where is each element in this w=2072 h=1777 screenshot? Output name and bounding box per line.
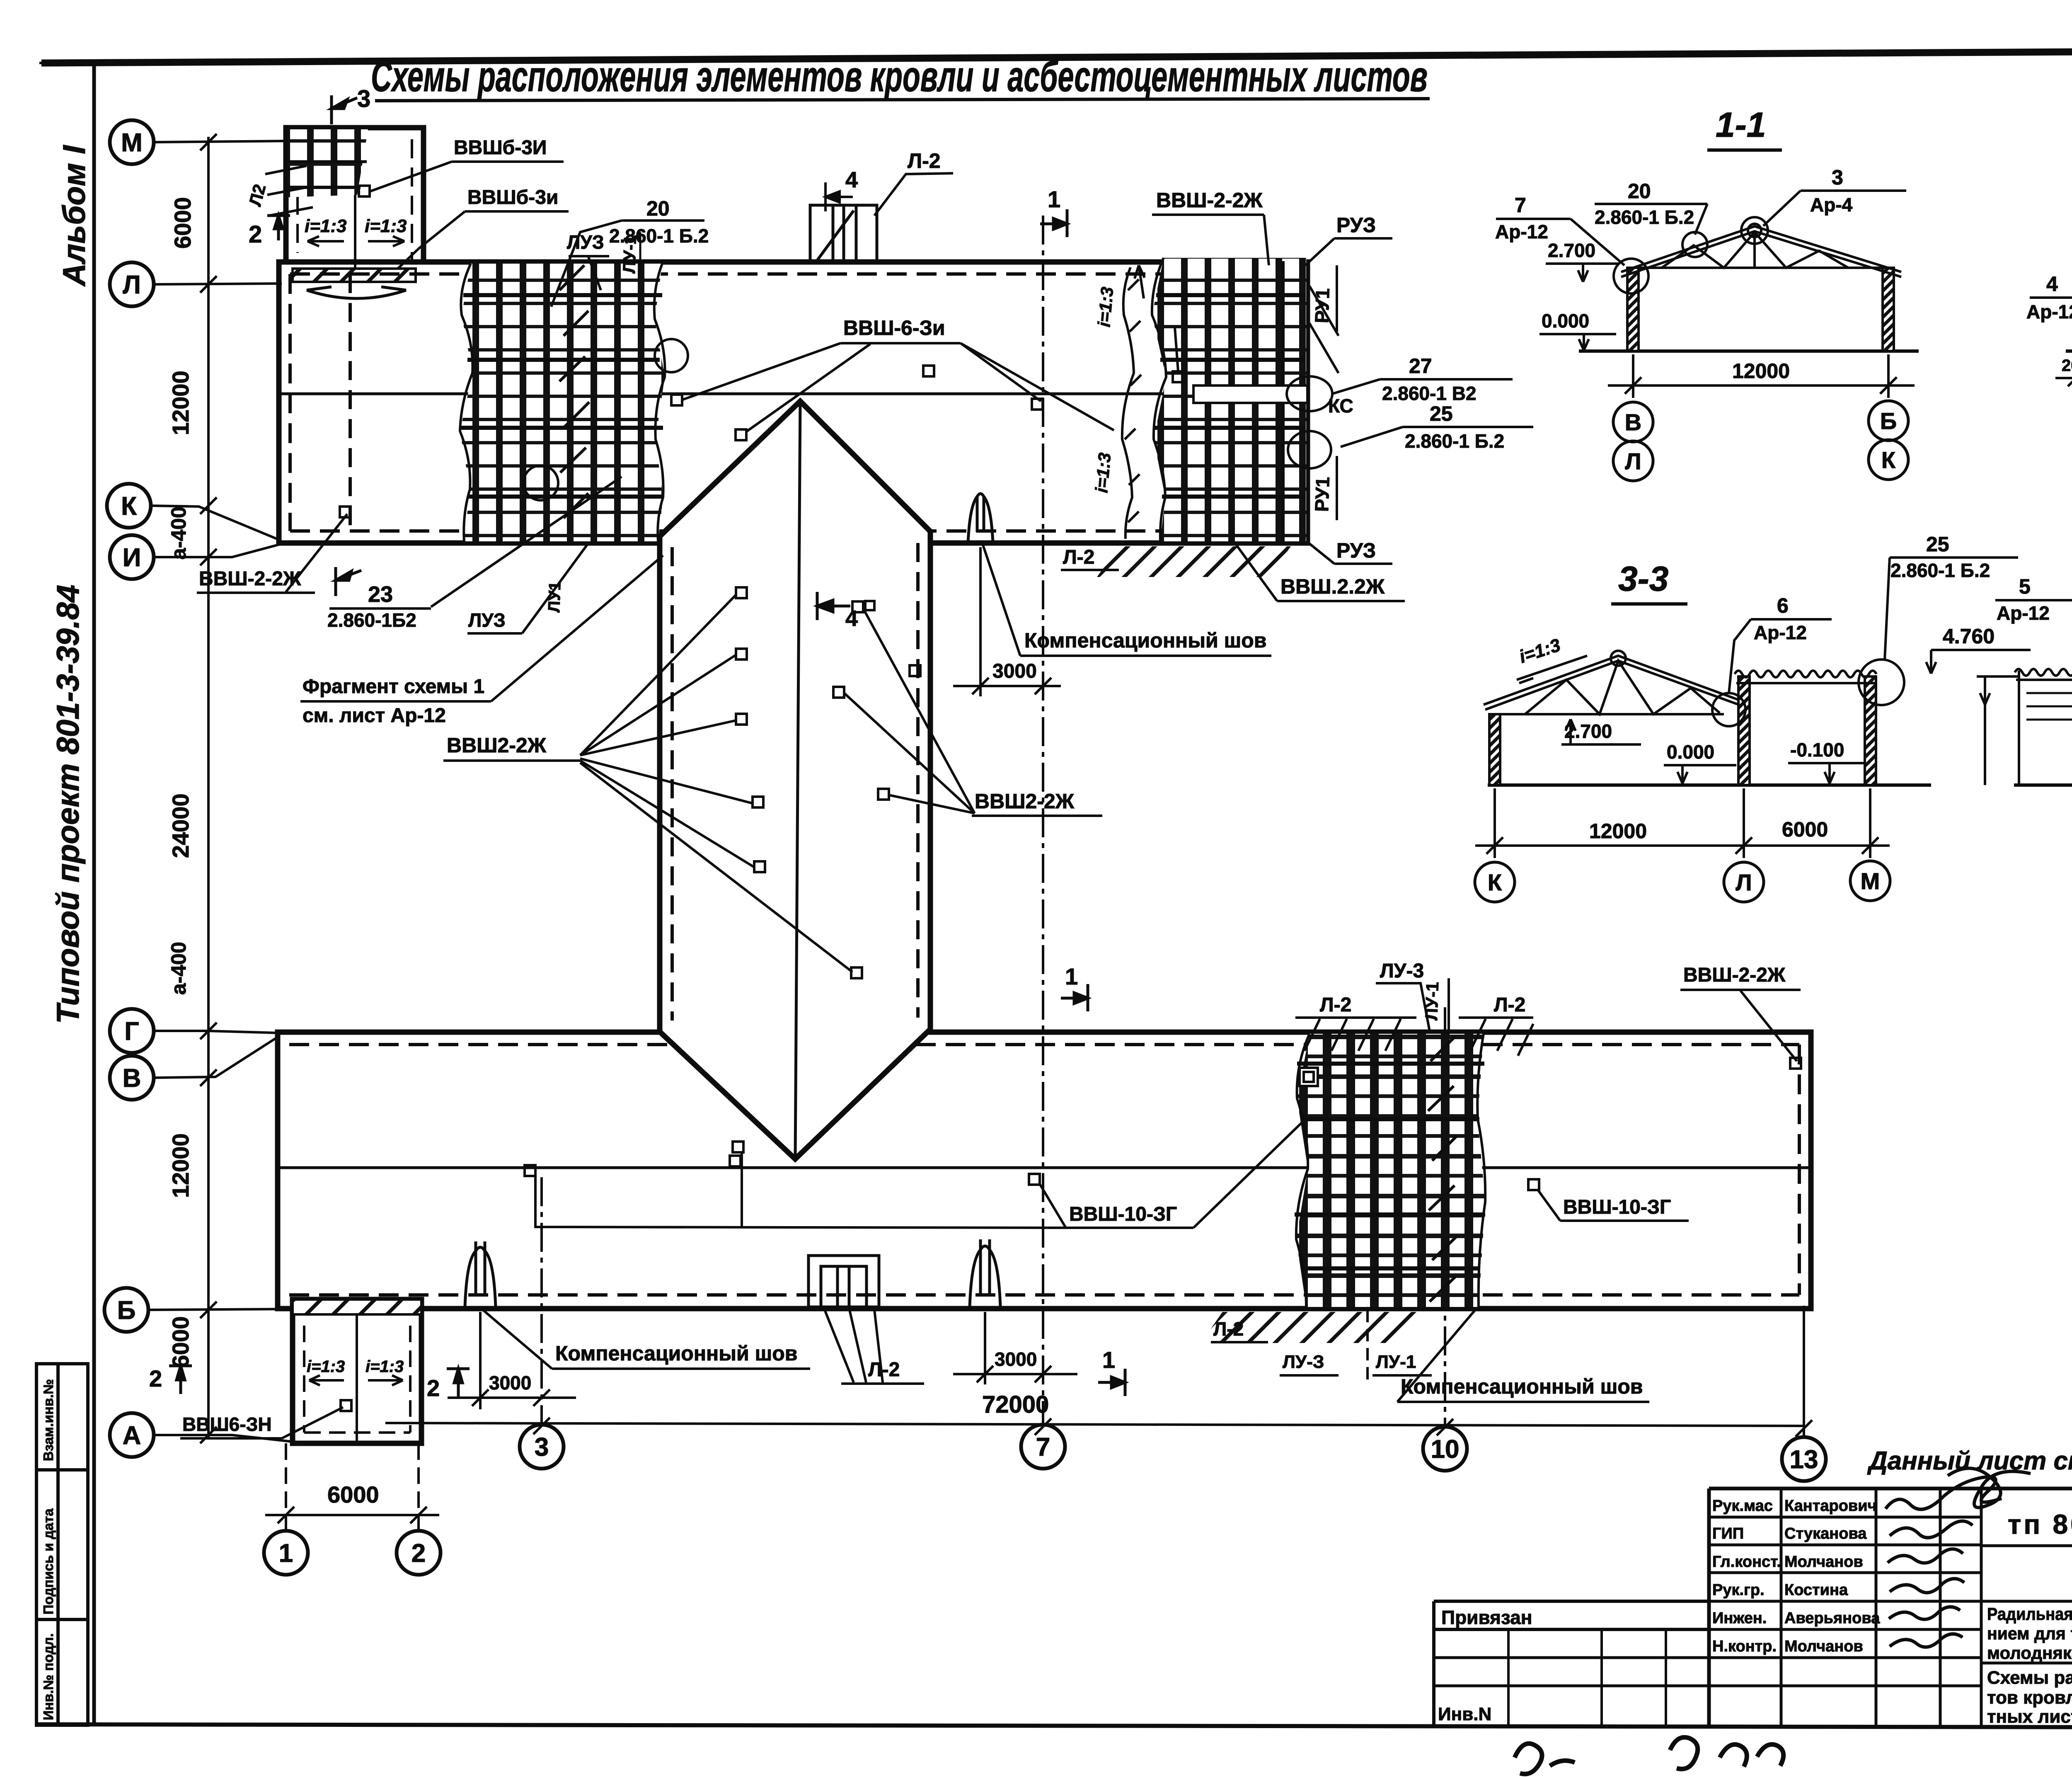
1-1 truss top chords (double) [1621,226,1901,277]
1-1 axis circles [1613,401,1908,481]
svg-text:тов кровли и асбестоцемен-: тов кровли и асбестоцемен- [1987,1687,2072,1708]
svg-text:Молчанов: Молчанов [1784,1638,1863,1655]
signatures scribbles [1886,1468,2031,1647]
3-3 small circle left of connector [1712,693,1745,726]
marker square in top strip left [340,507,351,517]
detail circle on block1 lower [523,465,558,500]
3-3 apex mark [1611,651,1626,666]
diagonal hatch band below block3 [1201,1312,1417,1343]
compensation bump 2 [970,1239,1000,1307]
bottom strip outline [278,1032,1811,1309]
hatch block 2 torn edge [1152,258,1166,541]
hatch block 3 [1296,1034,1485,1307]
axis circle Г [110,1009,154,1053]
detail circle on block1 upper [655,339,688,372]
svg-text:ВВШ.2.2Ж: ВВШ.2.2Ж [1280,575,1385,598]
svg-text:72000: 72000 [982,1391,1049,1418]
axis 7 dash-dot line [1042,216,1044,1425]
svg-text:ГИП: ГИП [1712,1525,1744,1542]
title underline [375,99,1430,101]
svg-text:тп 801-3-39.84: тп 801-3-39.84 [2008,1509,2072,1539]
vent box on top strip [810,205,877,262]
svg-text:3000: 3000 [995,1348,1037,1370]
bottom appendage inner dashed [304,1326,410,1433]
hexagon dashed valley left [670,547,674,1021]
svg-text:2.860-1 Б.2: 2.860-1 Б.2 [1890,560,1990,581]
svg-text:i=1:3: i=1:3 [366,1358,404,1376]
svg-text:Аверьянова: Аверьянова [1784,1610,1880,1627]
i=1:3 labels bottom appendage [307,1358,345,1385]
3-3 ground line [1488,783,1931,787]
diagonal band inside block3 [1428,1036,1458,1302]
svg-text:i=1:3: i=1:3 [307,1358,345,1376]
svg-text:а-400: а-400 [167,507,190,560]
svg-text:12000: 12000 [167,1133,194,1198]
svg-text:2.860-1 Б.2: 2.860-1 Б.2 [1595,206,1694,228]
svg-text:23: 23 [368,582,393,607]
svg-text:2: 2 [149,1365,162,1392]
svg-text:20: 20 [1628,179,1651,203]
3000 dim left [479,1312,482,1409]
svg-text:-0.100: -0.100 [1790,739,1844,761]
svg-text:Компенсационный шов: Компенсационный шов [1401,1375,1643,1398]
svg-text:1: 1 [1048,186,1060,212]
4-4 ground line [2014,783,2072,787]
svg-text:25: 25 [1430,402,1453,425]
3000 dim right [984,1312,986,1384]
hatch block 1 torn edges [460,264,665,541]
axis circle 10 [1423,1427,1467,1471]
bottom strip dashed right [1798,1045,1801,1295]
diagonal hatch band under top strip right [1097,546,1291,577]
axis circle 7 [1021,1425,1065,1469]
detail ellipse lower [1288,431,1331,468]
svg-text:i=1:3: i=1:3 [305,216,347,236]
1-1 truss webs [1662,232,1848,268]
svg-text:Типовой проект 801-3-39.84: Типовой проект 801-3-39.84 [51,585,86,1024]
slope label i=1:3 left [305,216,347,246]
compensation bump 1 on bottom strip [465,1241,496,1307]
svg-text:нием для телят и ремонтного: нием для телят и ремонтного [1987,1624,2072,1643]
svg-text:7: 7 [1036,1433,1050,1462]
marker squares top strip [671,395,682,405]
left sub-table (Privyazan) [1434,1601,1709,1725]
svg-text:см. лист Ар-12: см. лист Ар-12 [303,705,446,727]
slope label i=1:3 right [365,216,407,246]
svg-text:Л-2: Л-2 [1320,994,1351,1016]
svg-text:ЛУ-З: ЛУ-З [1283,1352,1324,1372]
svg-text:Схемы расположения элементов к: Схемы расположения элементов кровли и ас… [371,53,1428,101]
section mark 4 in hexagon [817,592,850,620]
marker square bottom appendage [341,1400,351,1411]
marker squares in hexagon [730,587,920,1166]
svg-text:Альбом I: Альбом I [57,145,92,287]
1-1 right column [1883,268,1894,351]
svg-text:4: 4 [845,606,858,631]
1-1 left column [1627,268,1639,351]
svg-text:3-3: 3-3 [1618,559,1668,598]
left vertical dimension line [200,134,217,1443]
1-1 truss bottom chord [1629,267,1894,269]
section mark 1 top [1040,209,1067,237]
svg-text:В: В [123,1064,141,1093]
VVSh-10-3G markers and label left [525,1142,1040,1185]
3-3 axis circles [1475,861,1890,902]
left leader fan to VVSh2-2Zh [580,595,852,972]
svg-text:2.860-1Б2: 2.860-1Б2 [327,609,416,631]
svg-text:Л-2: Л-2 [1213,1318,1244,1340]
left stamp table [36,1364,88,1725]
svg-text:1: 1 [1065,963,1078,989]
ridge element band at right edge [1281,261,1285,541]
dashed vertical axis in left part of strip [349,274,352,531]
svg-text:Инв.N: Инв.N [1438,1704,1491,1724]
sheet frame bottom line [36,1724,2072,1728]
1-1 slope detail circle [1682,232,1707,257]
bottom strip dashed top [289,1043,1799,1046]
vent box leader L-2 [874,173,953,216]
svg-text:12000: 12000 [167,371,194,435]
axis circle 1 [264,1531,308,1575]
svg-text:Л-2: Л-2 [908,149,941,172]
vent box 2 on bottom edge [808,1256,879,1307]
svg-text:Гл.конст.: Гл.конст. [1712,1553,1781,1571]
svg-text:Привязан: Привязан [1441,1607,1532,1628]
svg-text:3000: 3000 [489,1372,531,1394]
axis 10 dash-dot line [1444,1007,1446,1426]
svg-text:ВВШб-3И: ВВШб-3И [454,137,547,159]
top strip inner dashed bottom [290,529,1296,533]
svg-text:Костина: Костина [1784,1581,1848,1599]
3-3 corrugated roof [1735,671,1876,677]
top strip inner dashed left [288,274,292,531]
signature table columns [1781,1489,1981,1725]
svg-text:4.760: 4.760 [1943,625,1995,648]
svg-text:6000: 6000 [167,1316,194,1368]
svg-text:3: 3 [535,1433,549,1462]
compensation joint bump on top strip bottom edge [968,494,993,543]
svg-text:Ар-12: Ар-12 [1997,602,2050,624]
VVSh-10-3G label right [1528,1179,1539,1190]
faint bottom scribbles [1515,1737,1784,1774]
svg-text:6000: 6000 [1782,818,1828,841]
svg-text:РУ1: РУ1 [1311,476,1334,512]
svg-text:25: 25 [1926,533,1949,556]
axis circle 2 [397,1531,441,1575]
svg-text:6: 6 [1777,594,1789,617]
svg-text:2: 2 [249,221,262,248]
section mark 1 mid right [1061,984,1088,1011]
4-4 gable shading lines [2026,693,2072,720]
svg-text:ВВШ2-2Ж: ВВШ2-2Ж [975,790,1075,813]
svg-text:ВВШ6-ЗН: ВВШ6-ЗН [182,1413,272,1435]
1-1 ground line [1579,349,1919,353]
svg-text:24000: 24000 [167,793,194,858]
2-2 dims [2055,354,2072,388]
svg-text:Рук.мас: Рук.мас [1712,1497,1773,1515]
axis circle М [110,120,154,164]
svg-text:Ар-12: Ар-12 [2026,301,2072,322]
top appendage inner dashed [298,139,412,262]
tick outside top-left [39,63,94,63]
3-3 left column [1489,714,1500,785]
svg-text:А: А [123,1421,141,1450]
svg-text:Л: Л [1625,448,1641,474]
svg-text:Взам.инв.№: Взам.инв.№ [41,1379,56,1461]
svg-text:2.860-1 Б.2: 2.860-1 Б.2 [609,225,709,247]
main bottom dim line 72000 [385,1418,1812,1437]
bottom strip dashed bottom [289,1293,1799,1297]
white KC gap on ridge line [1193,385,1307,403]
top strip inner dashed right [1295,274,1298,531]
4-4 corrugated roof [2015,669,2072,676]
1-1 apex detail circle [1741,217,1768,244]
svg-text:И: И [123,543,141,572]
svg-text:ЛУ1: ЛУ1 [545,581,564,613]
marker square in appendage [359,186,370,196]
svg-text:3: 3 [1832,166,1843,189]
svg-text:ЛУЗ: ЛУЗ [468,609,506,631]
3000 dim at joint [979,547,982,696]
svg-text:2.860-1 Б.2: 2.860-1 Б.2 [1405,430,1504,452]
svg-text:Ар-12: Ар-12 [1495,221,1548,242]
svg-text:Л-2: Л-2 [868,1359,900,1381]
svg-text:ЛУ-3: ЛУ-3 [1380,960,1424,982]
small marker right of section 4 [865,601,874,610]
4-4 left wall line [2018,671,2020,785]
svg-text:6000: 6000 [169,197,196,249]
torn cut line left of block2 [1122,267,1134,539]
svg-text:0.000: 0.000 [1667,741,1714,763]
section mark 2 bottom appendage [169,1366,192,1394]
svg-text:Б: Б [1880,408,1897,434]
hatch block 3 purlins [1295,1064,1485,1268]
hexagon dashed valley right [916,543,920,1018]
top appendage center line [354,128,356,269]
svg-text:i=1:3: i=1:3 [1092,452,1114,494]
central hexagon roof outline [660,401,930,1159]
svg-text:К: К [121,492,137,521]
axis circle Л [110,262,154,306]
svg-text:а-400: а-400 [167,942,190,995]
sheet frame top line [41,50,2072,63]
svg-text:К: К [1881,447,1896,473]
svg-text:ВВШ-10-ЗГ: ВВШ-10-ЗГ [1069,1203,1177,1225]
svg-text:Компенсационный шов: Компенсационный шов [1024,629,1267,652]
svg-text:i=1:3: i=1:3 [365,216,407,236]
svg-text:Данный лист см. с листом: Данный лист см. с листом Ар-12 [1867,1447,2072,1475]
svg-text:ВВШ-2-2Ж: ВВШ-2-2Ж [1156,189,1263,212]
axis circle А [110,1413,154,1457]
section mark 2 (left, up arrow) [267,216,290,240]
svg-text:i=1:3: i=1:3 [1094,286,1117,328]
svg-text:Г: Г [124,1017,139,1046]
top strip ridge midline [279,393,1307,395]
svg-text:Схемы расположения элемен-: Схемы расположения элемен- [1987,1668,2072,1688]
tick marks on cut line [1125,279,1141,522]
3-3 webs [1525,661,1720,714]
1-1 dim 12000 [1608,354,1915,398]
svg-text:Радильная на 25коров с помеще-: Радильная на 25коров с помеще- [1987,1604,2072,1624]
1-1 eave detail circle [1614,259,1648,293]
axis circle Б [104,1288,148,1332]
svg-text:Б: Б [117,1296,136,1325]
svg-text:М: М [121,128,143,157]
svg-text:ВВШ-6-Зи: ВВШ-6-Зи [843,316,945,339]
svg-text:Н.контр.: Н.контр. [1712,1638,1777,1655]
3-3 top chords [1484,656,1740,710]
3-3 connector right column [1865,676,1876,785]
svg-text:6000: 6000 [327,1481,379,1508]
3-3 connector left column [1738,676,1750,785]
svg-text:Молчанов: Молчанов [1784,1553,1863,1571]
svg-text:1: 1 [1102,1347,1115,1373]
hatch block 2 (right, asbestos sheets) [1152,258,1306,541]
svg-text:1: 1 [279,1539,293,1568]
svg-text:В: В [1625,409,1641,435]
svg-text:Л-2: Л-2 [1063,546,1094,568]
svg-text:ЛУ-1: ЛУ-1 [1421,982,1442,1021]
4-4 left vertical dim [1980,676,1990,785]
section mark 4 on vent [825,182,853,211]
2-2 ground line [2066,349,2072,353]
svg-text:7: 7 [1515,194,1526,217]
svg-text:РУЗ: РУЗ [1336,213,1376,237]
svg-text:Рук.гр.: Рук.гр. [1712,1581,1765,1599]
slope arrows under sill [307,287,406,298]
bottom appendage outline [293,1299,421,1443]
svg-text:2: 2 [411,1539,426,1568]
3-3 truss bottom chord [1492,713,1724,715]
section mark 3 bottom [336,567,361,596]
svg-text:3000: 3000 [992,660,1037,682]
sheet frame left line [92,62,96,1724]
top appendage ladder hatch [288,129,368,197]
svg-text:Кантарович: Кантарович [1784,1497,1877,1515]
svg-text:10: 10 [1431,1435,1460,1464]
svg-text:М: М [1861,868,1880,894]
svg-text:3: 3 [357,85,370,112]
svg-text:тных листов: тных листов [1987,1707,2072,1727]
svg-text:РУЗ: РУЗ [1336,539,1376,562]
svg-text:4: 4 [2046,272,2058,296]
slope arrow near cut [1135,265,1145,298]
svg-text:ЛУ-1: ЛУ-1 [1376,1352,1416,1372]
axis 3 dash-dot line [540,1177,543,1425]
svg-text:КС: КС [1328,395,1353,417]
svg-text:12000: 12000 [1589,819,1647,843]
section mark 1 bottom [1098,1369,1125,1396]
svg-text:12000: 12000 [1732,359,1790,383]
svg-text:13: 13 [1790,1445,1818,1474]
svg-text:ВВШб-3и: ВВШб-3и [467,187,558,208]
svg-text:1-1: 1-1 [1716,105,1766,144]
signature table rows [1434,1517,1981,1686]
svg-text:Л-2: Л-2 [1494,994,1525,1016]
leader from block2 marker [1175,327,1178,371]
axis circle В [110,1056,154,1100]
svg-text:Компенсационный шов: Компенсационный шов [555,1342,798,1365]
axis circle И [110,535,154,579]
hatch block 2 purlins [1155,295,1305,497]
axis circle 3 [520,1425,564,1469]
hatch block 1 purlin lines [460,295,664,497]
title block main outline [1709,1489,2072,1725]
bottom appendage sill hatch [293,1299,421,1314]
svg-text:20: 20 [646,197,670,220]
axis circle 13 [1782,1437,1826,1481]
svg-text:Ар-4: Ар-4 [1810,194,1853,216]
svg-text:Стуканова: Стуканова [1784,1525,1867,1542]
bottom strip ridge midline [278,1166,1811,1169]
top appendage outline [286,128,424,262]
svg-text:ВВШ-2-2Ж: ВВШ-2-2Ж [199,568,301,590]
top strip inner dashed top [290,272,1296,276]
hexagon ridge line [795,401,800,1159]
svg-text:Л: Л [123,271,141,299]
svg-text:ВВШ-2-2Ж: ВВШ-2-2Ж [1683,964,1786,986]
svg-text:К: К [1488,869,1502,895]
svg-text:Инв.№ подл.: Инв.№ подл. [41,1633,56,1720]
svg-text:Л: Л [1736,869,1752,895]
hatch block 1 (asbestos sheets) [460,264,665,541]
right leader fan [844,608,975,813]
svg-text:2.700: 2.700 [1548,240,1595,261]
top appendage hatch frame lines [288,162,367,187]
svg-text:Фрагмент схемы 1: Фрагмент схемы 1 [303,676,484,698]
3-3 big detail circle right [1859,659,1904,705]
svg-text:5: 5 [2019,575,2031,598]
axis circle К [107,484,151,528]
detail ellipse KS [1287,376,1332,411]
svg-text:2.860-1 В2: 2.860-1 В2 [1382,383,1477,404]
axis leader lines [148,141,293,1442]
svg-text:ВВШ2-2Ж: ВВШ2-2Ж [447,734,547,757]
svg-text:молодняка на 220 голов: молодняка на 220 голов [1987,1643,2072,1663]
svg-text:27: 27 [1409,354,1432,378]
hatch block 3 torn edges [1296,1034,1485,1307]
axis 13 line [1803,1306,1805,1438]
right block rows [1981,1546,2072,1663]
3-3 dims [1475,788,1890,858]
appendage sill hatched band [293,269,416,282]
bottom appendage centre line [356,1314,358,1443]
svg-text:200: 200 [2062,356,2072,375]
svg-text:Подпись и дата: Подпись и дата [41,1508,56,1615]
hatch block 1 diagonal sheet band [559,265,589,518]
boxed marker inside block3 [1300,1068,1318,1086]
section mark 2 up (bottom centre-left) [447,1369,470,1398]
svg-text:2: 2 [427,1375,440,1401]
svg-text:4: 4 [845,167,858,192]
bottom dim line 6000 axes 1-2 [265,1443,439,1532]
svg-text:Инжен.: Инжен. [1712,1610,1767,1627]
svg-text:Ар-12: Ар-12 [1754,622,1807,643]
svg-text:0.000: 0.000 [1542,310,1589,332]
top strip outline [279,262,1307,543]
svg-text:ВВШ-10-ЗГ: ВВШ-10-ЗГ [1563,1196,1671,1218]
section mark 3 (top) [332,95,357,124]
edge hatch ticks right upper [1310,286,1339,373]
